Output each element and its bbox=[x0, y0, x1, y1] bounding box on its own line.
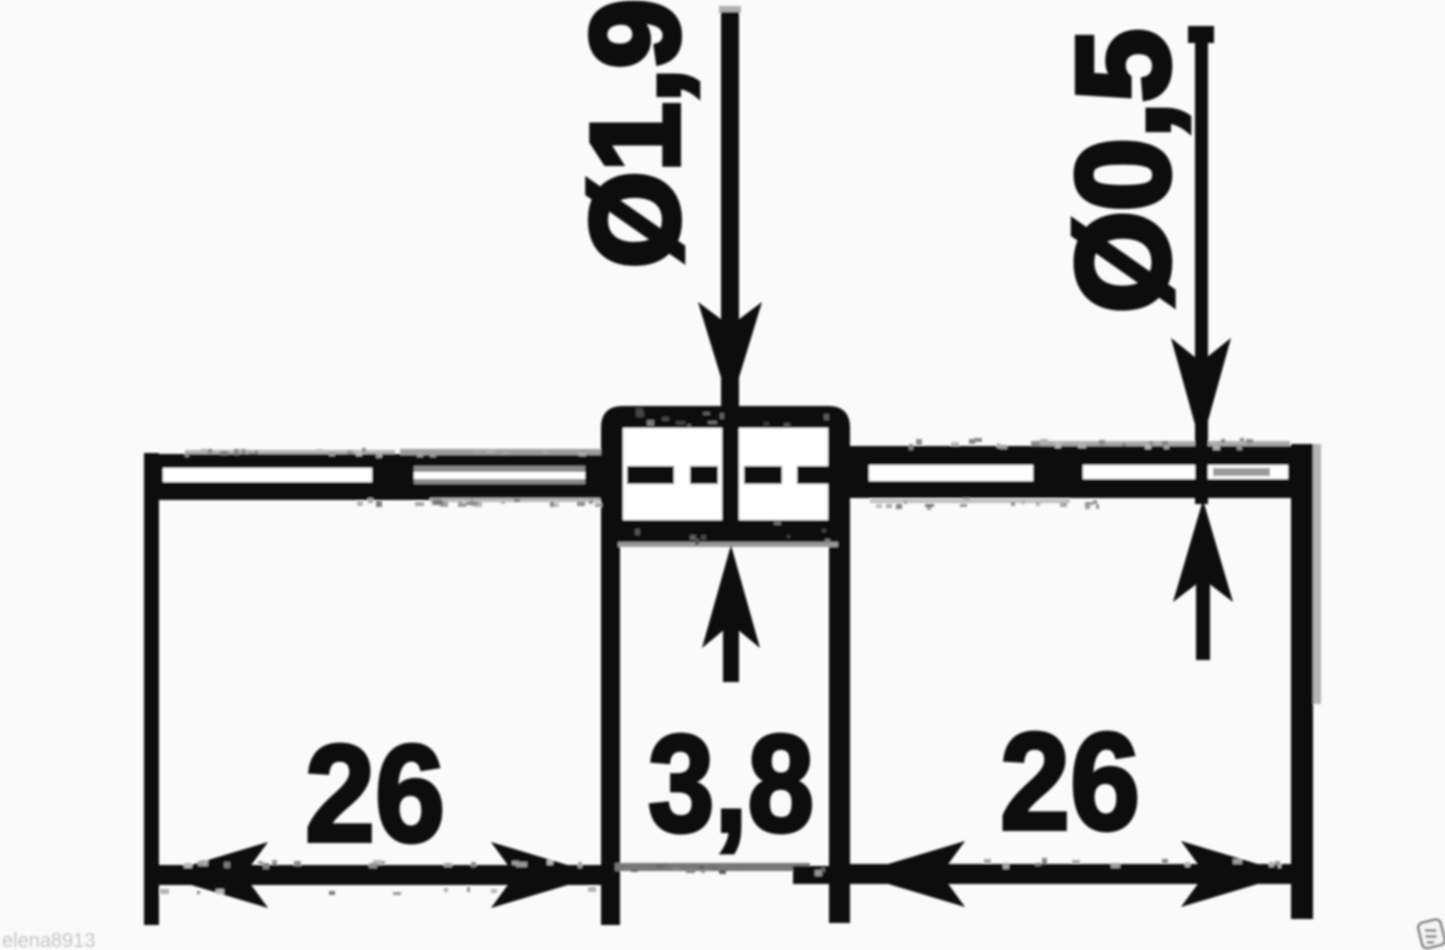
svg-text:Ø0,5: Ø0,5 bbox=[1049, 29, 1196, 313]
svg-text:Ø1,9: Ø1,9 bbox=[567, 0, 705, 268]
svg-text:26: 26 bbox=[1000, 705, 1140, 859]
svg-text:26: 26 bbox=[305, 717, 445, 871]
svg-text:elena8913: elena8913 bbox=[2, 930, 95, 950]
svg-text:3,8: 3,8 bbox=[648, 707, 814, 861]
